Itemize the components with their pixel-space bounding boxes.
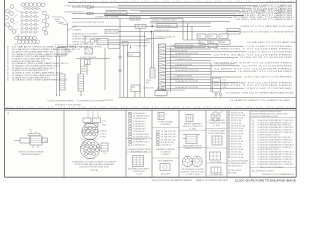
svg-text:30: 30 (93, 1, 95, 3)
label wire bus destinations (233, 1, 293, 21)
wire battery bus (105, 13, 245, 15)
switch S6 lighter (219, 34, 228, 39)
component M1 wiper motor (131, 85, 154, 97)
svg-text:KEY: KEY (29, 130, 32, 132)
svg-text:IVR: IVR (98, 39, 100, 41)
switch S3 wiper (208, 34, 217, 39)
instrument voltage regulator U1 (97, 39, 108, 45)
label connector C12 (183, 122, 204, 130)
junction block label (106, 10, 127, 15)
label fan footnote (155, 89, 186, 92)
circuit legend list (7, 46, 88, 82)
wire fan from firewall connector (166, 44, 247, 89)
wire accessory feed 297 (64, 11, 236, 14)
svg-text:FIG 13 1979 F100 350 MASTER W: FIG 13 1979 F100 350 MASTER WIRING (152, 179, 192, 182)
svg-text:LTR: LTR (220, 36, 223, 38)
switch S2 dimmer (197, 34, 206, 39)
svg-text:INSTRUMENT CLUSTER: INSTRUMENT CLUSTER (182, 169, 205, 171)
svg-text:437: 437 (252, 144, 255, 146)
svg-text:437: 437 (252, 154, 255, 156)
wire color code table (252, 110, 294, 169)
svg-text:FUSE 14: FUSE 14 (81, 71, 87, 73)
svg-text:18 BLU 483 DIM TO CLUSTER FEED: 18 BLU 483 DIM TO CLUSTER FEED (244, 77, 294, 79)
connector hatch C5B (122, 42, 128, 45)
svg-text:14 BLK 57 GRD TO CLUSTER FEED: 14 BLK 57 GRD TO CLUSTER FEED (246, 88, 294, 90)
svg-text:C 302: C 302 (103, 153, 107, 155)
switch S4 headlamp (199, 40, 208, 44)
svg-text:WPR: WPR (209, 36, 212, 38)
svg-text:437: 437 (252, 125, 255, 127)
svg-text:437: 437 (252, 120, 255, 122)
label connector C14 (208, 119, 227, 127)
svg-text:C-405 C-406: C-405 C-406 (186, 174, 200, 176)
switch S5 heater (210, 40, 219, 44)
connector C2 inline (87, 6, 94, 8)
svg-text:437: 437 (252, 159, 255, 161)
label terminal group 1 (128, 148, 151, 154)
svg-text:C-100: C-100 (136, 174, 142, 176)
svg-text:F: F (166, 115, 167, 117)
svg-text:HLP: HLP (200, 42, 203, 44)
label table footer (252, 169, 294, 176)
connector C6 cable (146, 32, 155, 85)
svg-text:437: 437 (252, 137, 255, 139)
svg-text:437: 437 (252, 149, 255, 151)
label run circuit tags (72, 21, 104, 24)
svg-text:SEE SECTION 19: SEE SECTION 19 (228, 165, 242, 167)
svg-text:UNLESS OTHERWISE NOTED: UNLESS OTHERWISE NOTED (252, 116, 279, 118)
connector C11 detail (128, 156, 150, 176)
svg-text:ENGINE SIDE: ENGINE SIDE (133, 171, 145, 173)
svg-text:10: 10 (7, 80, 9, 82)
connector C3 inline (87, 12, 94, 14)
svg-text:CONNECTOR C-310: CONNECTOR C-310 (184, 148, 201, 150)
svg-text:437: 437 (252, 122, 255, 124)
wire accessory run (72, 25, 146, 27)
gauge G1 (85, 36, 146, 44)
ignition switch assembly detail (14, 130, 48, 149)
svg-text:C-501 VIEW: C-501 VIEW (210, 162, 223, 164)
svg-text:437: 437 (252, 164, 255, 166)
svg-text:HTR: HTR (211, 42, 214, 44)
svg-text:30: 30 (30, 107, 32, 109)
connector C14 detail (211, 111, 223, 121)
svg-text:C 604: C 604 (222, 83, 226, 85)
label steering column connector (72, 161, 116, 171)
svg-text:18 ORG 181 OIL TO CLUSTER FEED: 18 ORG 181 OIL TO CLUSTER FEED (240, 57, 294, 59)
svg-text:437: 437 (252, 132, 255, 134)
label group 3 (157, 148, 176, 156)
instrument cluster plugs detail (182, 156, 202, 166)
terminal list group 3 (157, 130, 176, 147)
label sheet caption (152, 179, 297, 182)
fuse block F1 (57, 48, 72, 57)
label symbol list notes (228, 160, 248, 175)
svg-text:80: 80 (82, 107, 84, 109)
label wire fan destinations (214, 45, 296, 90)
wire bus upper lines (118, 5, 258, 17)
connector C8A junction (85, 48, 93, 54)
svg-text:14 LG/YEL 10 TO CLUSTER FEED: 14 LG/YEL 10 TO CLUSTER FEED (242, 66, 294, 68)
wire feed circuit 37 (64, 4, 246, 7)
resistor R1 blower resistor (60, 74, 68, 90)
svg-text:SWITCH CONNECTOR: SWITCH CONNECTOR (183, 126, 204, 128)
svg-text:16 GRN/WHT 3 TO CLUSTER FEED: 16 GRN/WHT 3 TO CLUSTER FEED (238, 71, 294, 73)
svg-text:CLICK ON PICTURE TO ENLARGE IM: CLICK ON PICTURE TO ENLARGE IMAGE (235, 179, 297, 182)
svg-text:DOOR SWITCHES: DOOR SWITCHES (209, 133, 225, 135)
svg-text:40: 40 (197, 1, 199, 3)
svg-text:10: 10 (290, 107, 292, 109)
label rear harness notes (55, 92, 294, 107)
panel label zone A (7, 112, 130, 115)
svg-text:437: 437 (252, 147, 255, 149)
label ignition switch (18, 151, 45, 157)
connector C5A inline (135, 24, 146, 28)
wire gauge feed (108, 40, 150, 43)
switch S7 radio (221, 40, 230, 44)
svg-text:STEERING COLUMN CONNECTOR VIEW: STEERING COLUMN CONNECTOR VIEWS (72, 161, 116, 163)
connector C8 lower strip (78, 74, 84, 91)
svg-text:BUZZER: BUZZER (161, 173, 171, 175)
wire drop with arrow (77, 91, 105, 102)
svg-text:C 605: C 605 (222, 87, 226, 89)
svg-text:40: 40 (134, 107, 136, 109)
wire accessory drops (128, 28, 145, 97)
svg-text:16 BLU 44: 16 BLU 44 (100, 134, 107, 136)
svg-text:CONNECTOR VIEW: CONNECTOR VIEW (208, 123, 227, 125)
label circuit tags column (72, 33, 99, 46)
terminal list group 1 (129, 112, 151, 146)
connector C9 on rear feed (103, 88, 167, 102)
connector C12 detail (186, 115, 193, 122)
wire right sparse labels (240, 25, 297, 44)
svg-text:437: 437 (252, 152, 255, 154)
buzzer detail (158, 159, 174, 175)
connector C17 detail (209, 167, 224, 177)
svg-text:PRINTED CIRCUIT PLUGS: PRINTED CIRCUIT PLUGS (181, 172, 205, 174)
svg-text:16 BLU 249 HTR: 16 BLU 249 HTR (80, 57, 97, 59)
label breaker box (175, 44, 217, 48)
wire heater feed tie (76, 57, 110, 74)
fuse F2 inline (81, 60, 90, 76)
connector C901 bulkhead disconnect face view (5, 3, 49, 46)
svg-text:80: 80 (145, 1, 147, 3)
svg-text:C 210: C 210 (129, 54, 133, 56)
svg-text:90: 90 (249, 1, 251, 3)
svg-text:437: 437 (252, 130, 255, 132)
wire accessory branch (146, 26, 238, 39)
svg-text:16 RED 25: 16 RED 25 (100, 131, 107, 133)
label heater blower box (58, 44, 147, 49)
connector C15 detail (208, 130, 225, 145)
svg-text:C 301: C 301 (102, 121, 106, 123)
connector C13 detail (183, 135, 200, 144)
svg-text:437: 437 (252, 161, 255, 163)
svg-text:437: 437 (252, 139, 255, 141)
wire main feed to rear harness (105, 18, 296, 97)
svg-text:CIRCUITS FROM WIRE SIDE: CIRCUITS FROM WIRE SIDE (79, 167, 109, 169)
svg-text:437: 437 (252, 157, 255, 159)
node fuel tank sender taps (215, 93, 222, 97)
svg-text:PAGE 2 OF 2 BODY CIRCUITS: PAGE 2 OF 2 BODY CIRCUITS (196, 179, 229, 182)
label connector C13 (183, 145, 202, 151)
svg-text:437: 437 (252, 135, 255, 137)
svg-text:437: 437 (252, 127, 255, 129)
svg-text:14 BRN 977 TO CLUSTER FEED: 14 BRN 977 TO CLUSTER FEED (214, 68, 296, 70)
svg-text:C BKR: C BKR (81, 68, 85, 70)
wire relay drops (183, 18, 230, 40)
svg-text:C 603: C 603 (222, 80, 226, 82)
wire cluster to main harness (52, 17, 68, 25)
svg-text:16 GA BLK ORG DOME LAMP FEED N: 16 GA BLK ORG DOME LAMP FEED NO 2 (12, 79, 66, 82)
relay block K2 (211, 62, 235, 92)
relay K1 horn relay (150, 19, 230, 28)
connector C4 inline (130, 17, 140, 20)
svg-text:C-407: C-407 (213, 125, 220, 127)
svg-text:18 GRN 3: 18 GRN 3 (100, 137, 106, 139)
svg-text:20 BLU 941: 20 BLU 941 (143, 88, 154, 90)
fuse link box (72, 28, 146, 33)
svg-text:14 RED 640: 14 RED 640 (103, 100, 113, 102)
svg-text:437: 437 (252, 142, 255, 144)
label flasher (158, 121, 173, 127)
svg-text:90: 90 (186, 107, 188, 109)
svg-text:FUSE LINK: FUSE LINK (106, 31, 117, 33)
svg-text:14 BLK 57 GRD TO CLUSTER FEED: 14 BLK 57 GRD TO CLUSTER FEED (248, 52, 294, 54)
wire left harness drop (55, 17, 76, 97)
connector C7 firewall strip (159, 44, 166, 90)
label cluster plugs (181, 169, 205, 176)
svg-text:16 RED/YEL 2 TO CLUSTER FEED: 16 RED/YEL 2 TO CLUSTER FEED (214, 49, 295, 51)
wire vertical tie (170, 48, 172, 93)
svg-text:16 RED/YEL 2 TO CLUSTER FEED: 16 RED/YEL 2 TO CLUSTER FEED (214, 85, 295, 87)
svg-text:R: R (66, 80, 67, 82)
svg-text:C-305: C-305 (189, 129, 196, 131)
label harness destination note (47, 99, 74, 102)
wire ignition run circuit (72, 16, 183, 19)
connector C5 two-cavity (227, 29, 240, 35)
wire symbol list (228, 111, 246, 159)
connector C16 detail (210, 152, 223, 164)
svg-text:FUSE: FUSE (67, 50, 71, 52)
flasher unit detail (158, 113, 167, 120)
steering column connector detail (80, 111, 108, 159)
svg-text:50: 50 (238, 107, 240, 109)
